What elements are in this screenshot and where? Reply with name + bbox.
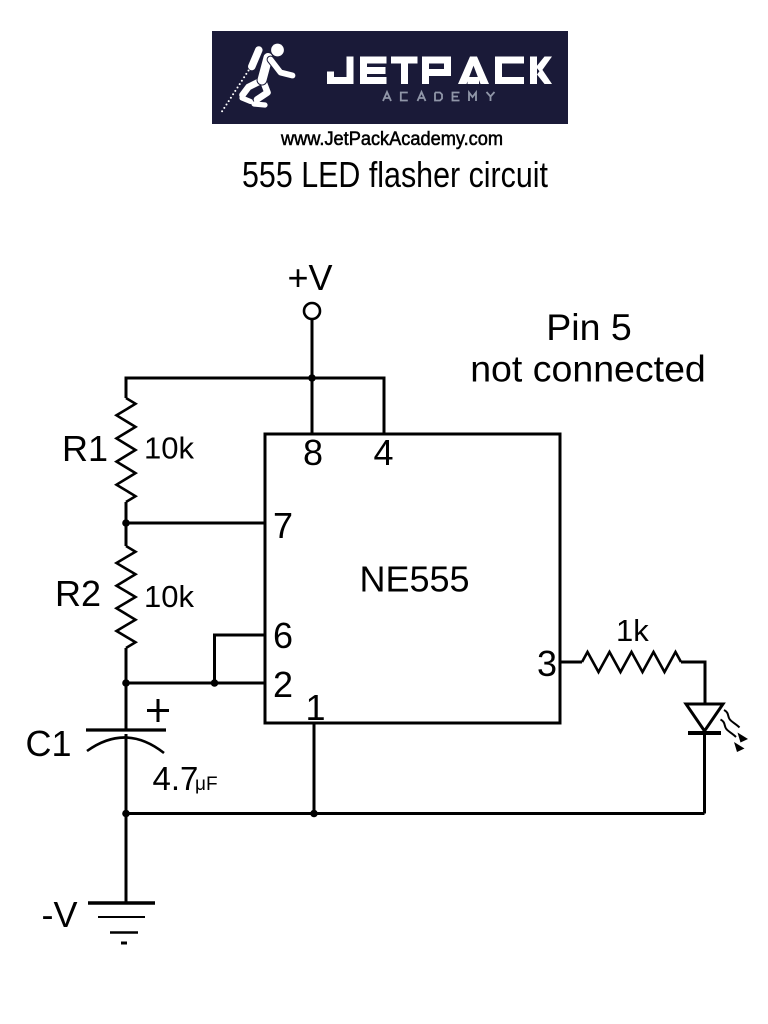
svg-text:10k: 10k (144, 431, 194, 466)
svg-text:1: 1 (305, 687, 325, 728)
svg-text:10k: 10k (144, 579, 194, 614)
svg-text:R1: R1 (62, 428, 108, 469)
svg-text:3: 3 (537, 643, 557, 684)
svg-text:-V: -V (42, 894, 78, 935)
svg-text:6: 6 (273, 615, 293, 656)
svg-text:Pin 5: Pin 5 (546, 306, 631, 348)
svg-text:7: 7 (273, 505, 293, 546)
svg-text:NE555: NE555 (359, 559, 469, 600)
svg-text:2: 2 (273, 664, 293, 705)
svg-text:1k: 1k (616, 613, 649, 648)
svg-text:not connected: not connected (470, 348, 706, 390)
svg-text:8: 8 (303, 432, 323, 473)
svg-text:4.7: 4.7 (153, 760, 199, 797)
svg-text:C1: C1 (26, 723, 72, 764)
svg-text:4: 4 (373, 432, 393, 473)
svg-text:+V: +V (287, 257, 332, 298)
svg-text:μF: μF (195, 774, 218, 795)
svg-text:555 LED flasher circuit: 555 LED flasher circuit (242, 154, 548, 195)
svg-text:www.JetPackAcademy.com: www.JetPackAcademy.com (280, 128, 503, 150)
svg-text:R2: R2 (55, 573, 101, 614)
